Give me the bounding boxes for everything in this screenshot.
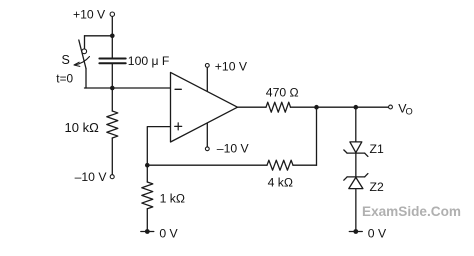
wire switch bottom stub — [85, 69, 87, 89]
op-amp plus input symbol — [175, 123, 182, 130]
junction node output/zener — [354, 105, 359, 110]
zener diode Z1 — [344, 142, 368, 157]
svg-text:1 kΩ: 1 kΩ — [160, 192, 185, 206]
ground terminal 0V right — [349, 231, 362, 233]
svg-text:0 V: 0 V — [368, 227, 387, 241]
wire capacitor bottom stub — [111, 64, 113, 88]
svg-text:O: O — [406, 107, 413, 117]
svg-text:Z2: Z2 — [370, 180, 384, 194]
svg-text:ExamSide.Com: ExamSide.Com — [362, 204, 461, 219]
zener diode Z2 — [344, 174, 368, 189]
svg-text:–10 V: –10 V — [75, 170, 108, 184]
switch S contact circle — [82, 49, 87, 54]
wire output rail to Vo — [291, 106, 389, 108]
op-amp U1 triangle — [171, 72, 238, 142]
wire output node to Z1 — [355, 107, 357, 142]
wire switch top stub — [84, 36, 86, 49]
wire feedback right segment — [293, 164, 317, 166]
wire from +10V terminal down — [111, 16, 113, 35]
terminal circle +10V supply — [110, 12, 114, 16]
terminal circle opamp -10V — [205, 147, 209, 151]
svg-text:10 kΩ: 10 kΩ — [65, 120, 100, 135]
wire top horizontal to switch branch — [85, 35, 113, 37]
op-amp minus input symbol — [175, 88, 181, 90]
wire opamp -supply stub — [206, 123, 208, 147]
svg-text:S: S — [62, 53, 70, 67]
wire node to 10k resistor — [111, 88, 113, 111]
label Vo — [398, 102, 413, 117]
wire feedback vertical — [316, 107, 318, 165]
switch S blade — [79, 40, 86, 69]
svg-text:+10 V: +10 V — [73, 8, 106, 22]
ground terminal 0V left — [141, 231, 154, 233]
terminal circle opamp +10V — [205, 64, 209, 68]
ground dot left — [145, 229, 150, 234]
wire 1k to 0V — [146, 209, 148, 232]
svg-text:4 kΩ: 4 kΩ — [268, 175, 293, 189]
ground dot right — [353, 229, 358, 234]
svg-text:470 Ω: 470 Ω — [266, 86, 299, 100]
wire inverting input rail — [85, 87, 171, 89]
svg-text:100 μ F: 100 μ F — [128, 54, 170, 68]
resistor 470 Ohm — [266, 102, 291, 112]
wire 10k to -10V terminal — [111, 138, 113, 175]
wire capacitor top stub — [111, 36, 113, 58]
svg-text:+10 V: +10 V — [215, 59, 248, 73]
junction node at top — [110, 34, 115, 39]
resistor 10 kOhm — [107, 111, 118, 138]
wire opamp output — [238, 106, 267, 108]
junction node inverting rail — [110, 86, 115, 91]
junction node feedback/1k — [145, 163, 150, 168]
wire feedback node to 1k — [146, 165, 148, 182]
svg-text:t=0: t=0 — [56, 72, 73, 86]
wire Z2 to 0V — [355, 189, 357, 232]
wire non-inverting input — [147, 127, 170, 166]
svg-text:0 V: 0 V — [159, 227, 178, 241]
wire feedback left segment — [147, 164, 267, 166]
resistor 4 kOhm — [267, 160, 293, 170]
wire between zeners — [355, 153, 357, 177]
svg-text:Z1: Z1 — [370, 142, 384, 156]
switch actuation arrow — [74, 57, 90, 67]
svg-text:–10 V: –10 V — [217, 142, 250, 156]
capacitor C 100uF plates — [99, 59, 125, 64]
terminal circle Vo — [389, 105, 393, 109]
wire opamp +supply stub — [206, 67, 208, 91]
junction node output/feedback — [314, 105, 319, 110]
terminal circle -10V left — [110, 175, 114, 179]
resistor 1 kOhm — [142, 182, 153, 209]
